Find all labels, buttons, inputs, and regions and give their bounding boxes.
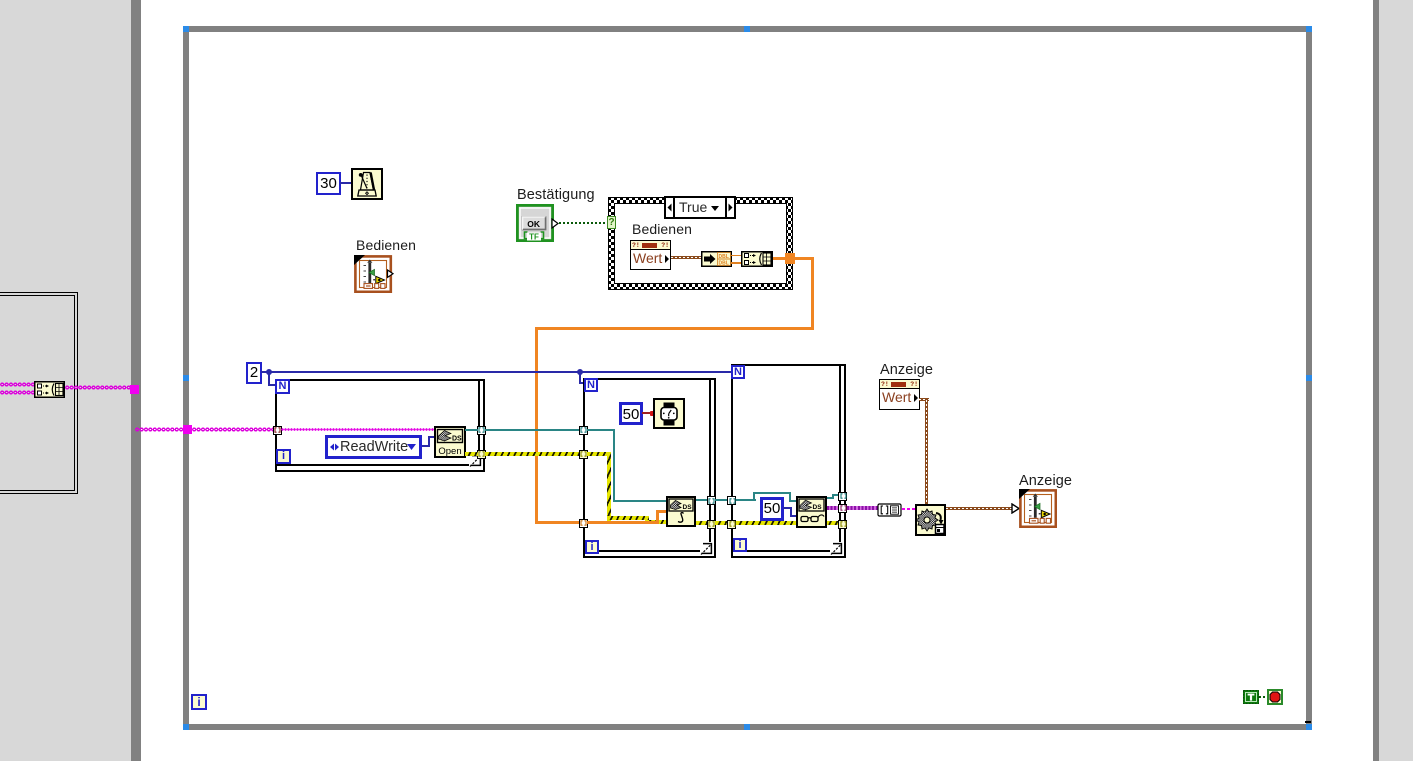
case selector terminal ? [607, 216, 616, 229]
orange tunnel (case) [785, 253, 795, 264]
loop 3 iteration terminal i [733, 538, 747, 552]
front panel gray background [0, 0, 131, 761]
striped wire loop2 to loop3 [715, 521, 728, 525]
orange wire inside loop2 [587, 521, 659, 524]
selection handle right-mid [1306, 375, 1312, 381]
wire endpoint square (pane) [130, 385, 139, 394]
loop 1 right tunnel refnum array [477, 450, 486, 459]
black tick above bottom-right handle [1305, 721, 1311, 723]
bundle node (panel) [34, 381, 65, 398]
DataSocket Open node [434, 426, 466, 458]
loop 2 iteration terminal i [585, 540, 599, 554]
svg-text:DS: DS [813, 504, 823, 511]
selection handle bottom-left [183, 724, 189, 730]
label Anzeige (property) [880, 362, 933, 378]
striped wire DSwrite out [696, 521, 707, 525]
orange wire: right [794, 257, 814, 260]
boolean control terminal OK button [516, 204, 554, 242]
striped wire DSOpen out [465, 452, 478, 456]
for loop 2 border [583, 378, 716, 380]
for loop 1 fold corner [469, 454, 483, 468]
cluster wire to pane edge [65, 385, 131, 390]
wire 30 to wait [340, 182, 351, 184]
magenta wire inside loop1 [281, 428, 434, 431]
DataSocket Write node [666, 496, 696, 527]
refnum wire Wert down to gear [919, 398, 929, 401]
teal wire inside loop3 [736, 499, 756, 501]
left pane divider [131, 0, 141, 761]
numeric constant 50 (loop2) [619, 402, 643, 425]
while loop iteration terminal i [191, 694, 207, 710]
while loop left border [183, 32, 189, 724]
label Anzeige (indicator) [1019, 473, 1072, 489]
front panel frame [0, 292, 78, 494]
boolean wire to stop terminal [1259, 696, 1267, 698]
numeric constant 50 (loop3) [760, 497, 784, 521]
while loop bottom border [189, 724, 1306, 730]
junction dot [266, 369, 272, 375]
blue wire 2 to junction [261, 371, 271, 373]
loop 1 left tunnel (cluster array) [273, 426, 282, 435]
cluster wire magenta top [0, 382, 34, 387]
loop 2 left tunnel teal [579, 426, 588, 435]
striped wire across loop3 [736, 521, 839, 525]
boolean constant T [1243, 690, 1259, 704]
teal wire inside loop2 [587, 429, 615, 431]
teal wire DSwrite out [696, 499, 707, 501]
wire endpoint square on loop border [183, 425, 192, 434]
teal wire DSOpen out [465, 429, 478, 431]
wire 50 to wait ms [642, 412, 652, 414]
svg-text:DS: DS [452, 436, 462, 443]
to-variant node DBL [701, 251, 732, 267]
case selector label True [664, 196, 736, 219]
purple wire loop3 to index [847, 506, 878, 510]
refnum wire Wert to converter [671, 256, 701, 259]
teal wire loop2 to loop3 [715, 499, 728, 501]
property node Bedienen.Wert [630, 240, 671, 270]
orange wire: to loop2 [538, 521, 580, 524]
loop 2 count terminal N [584, 378, 598, 392]
wait until next ms multiple (metronome) [351, 168, 383, 200]
loop 3 left tunnel striped [727, 520, 736, 529]
DataSocket Read node (glasses) [796, 496, 827, 528]
selection handle bottom-right [1306, 724, 1312, 730]
svg-text:OK: OK [527, 219, 541, 229]
wait ms (watch) node [653, 398, 685, 429]
loop 2 left tunnel orange [579, 519, 588, 528]
loop 1 right tunnel teal [477, 426, 486, 435]
orange wire: down left [535, 327, 538, 524]
numeric constant 30 [316, 172, 341, 195]
loop 2 right tunnel striped [707, 520, 716, 529]
orange wire: down [811, 257, 814, 330]
label Bedienen (case) [632, 221, 692, 237]
teal wire loop1 to loop2 [485, 429, 579, 431]
while loop right border [1306, 32, 1312, 724]
enum constant ReadWrite [325, 435, 422, 459]
property node Anzeige.Wert [879, 379, 920, 410]
cluster wire magenta bottom [0, 390, 34, 395]
striped wire loop1 to loop2 [485, 452, 579, 456]
selection handle bottom-mid [744, 724, 750, 730]
blue wire 50 to DSread [783, 507, 792, 509]
label Bestaetigung [517, 187, 595, 203]
orange wire: left [535, 327, 814, 330]
case structure border [608, 197, 793, 290]
blue wire top run [271, 371, 732, 373]
control terminal Bedienen (slider) [354, 255, 394, 293]
blue wire enum to DS Open [422, 445, 430, 447]
refnum wire gear to Anzeige [946, 507, 1013, 510]
loop condition stop terminal [1267, 689, 1283, 705]
loop 3 count terminal N [731, 365, 745, 379]
input arrow Anzeige [1011, 503, 1020, 514]
indicator terminal Anzeige (slider) [1019, 489, 1057, 528]
while loop top border [189, 26, 1306, 32]
for loop 3 fold corner [830, 542, 844, 556]
numeric constant 2 [246, 362, 262, 384]
loop 2 left tunnel striped [579, 450, 588, 459]
loop 3 left tunnel teal [727, 496, 736, 505]
loop 3 right tunnel string array [838, 504, 847, 513]
orange wire bundle to tunnel [773, 257, 785, 260]
svg-text:DS: DS [683, 504, 693, 511]
right pane divider [1373, 0, 1379, 761]
selection handle left-mid [183, 375, 189, 381]
index array node [877, 503, 903, 517]
junction dot 2 [577, 369, 583, 375]
for loop 3 border [731, 364, 846, 366]
svg-text:Open: Open [438, 446, 461, 457]
selection handle top-left [183, 26, 189, 32]
svg-text:DBL: DBL [719, 260, 729, 266]
selection handle top-mid [744, 26, 750, 32]
bundle node (case) [741, 251, 773, 267]
loop 1 count terminal N [275, 379, 290, 394]
loop 3 right tunnel teal [838, 492, 847, 501]
loop 2 right tunnel teal [707, 496, 716, 505]
teal wire DSread out [827, 497, 834, 499]
selection handle top-right [1306, 26, 1312, 32]
variant to data node (gear) [915, 504, 946, 536]
for loop 2 fold corner [700, 542, 714, 556]
magenta wire to loop1 tunnel [192, 427, 273, 432]
loop 1 iteration terminal i [276, 449, 291, 464]
string wire index to variant [902, 508, 916, 510]
boolean wire OK to case [559, 222, 608, 224]
purple wire DSread out [827, 506, 838, 510]
right gray background [1379, 0, 1413, 761]
thin wires DBL to bundle [731, 255, 742, 257]
label Bedienen [356, 237, 416, 253]
magenta wire pane to loop1 [135, 427, 184, 432]
blue wire drop to N1 [268, 373, 270, 385]
output arrow OK [551, 218, 559, 229]
striped wire inside loop2 [587, 452, 611, 456]
svg-text:TF: TF [529, 232, 539, 241]
loop 3 right tunnel striped [838, 520, 847, 529]
svg-text:DBL: DBL [719, 254, 729, 260]
blue wire drop to N2 [579, 373, 581, 384]
for loop 1 border [275, 379, 485, 381]
